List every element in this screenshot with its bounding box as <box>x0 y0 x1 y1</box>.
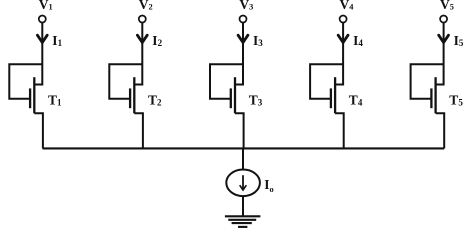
wire V5 terminal to T5 drain <box>436 23 444 85</box>
current arrow I2 <box>137 35 147 42</box>
node V5 label <box>440 0 454 12</box>
svg-text:I5: I5 <box>454 33 464 48</box>
transistor T1 <box>30 77 34 113</box>
wire V4 terminal to T4 drain <box>335 23 343 85</box>
transistor T2 <box>130 77 134 113</box>
current arrow I5 <box>439 35 449 42</box>
label I1 <box>52 33 62 48</box>
svg-text:Io: Io <box>264 177 273 194</box>
label Io <box>264 177 273 194</box>
voltage terminal V3 <box>240 16 247 23</box>
wire T3 source to rail <box>235 113 244 148</box>
wire T5 source to rail <box>436 113 445 148</box>
voltage terminal V4 <box>340 16 347 23</box>
ground <box>225 216 261 227</box>
wire gate feedback loop T5 <box>411 64 444 99</box>
wire gate feedback loop T3 <box>210 64 243 99</box>
svg-text:V1: V1 <box>39 0 53 12</box>
voltage terminal V2 <box>139 16 146 23</box>
svg-text:I1: I1 <box>52 33 62 48</box>
svg-text:T2: T2 <box>148 92 162 107</box>
wire current source to ground <box>242 196 244 216</box>
wire gate feedback loop T2 <box>109 64 142 99</box>
svg-text:V3: V3 <box>239 0 253 12</box>
node V3 label <box>239 0 253 12</box>
voltage terminal V1 <box>39 16 46 23</box>
current arrow I3 <box>238 35 248 42</box>
svg-text:V4: V4 <box>340 0 355 12</box>
wire T4 source to rail <box>335 113 344 148</box>
wire V1 terminal to T1 drain <box>34 23 42 85</box>
voltage terminal V5 <box>440 16 447 23</box>
label I5 <box>454 33 464 48</box>
wire gate feedback loop T1 <box>9 64 42 99</box>
wire rail to current source <box>242 148 244 169</box>
node V1 label <box>39 0 53 12</box>
label T3 <box>249 92 263 107</box>
label T1 <box>48 92 62 107</box>
svg-text:I4: I4 <box>353 33 363 48</box>
svg-text:T1: T1 <box>48 92 62 107</box>
svg-text:V5: V5 <box>440 0 454 12</box>
label T2 <box>148 92 162 107</box>
svg-text:T4: T4 <box>349 92 363 107</box>
svg-text:I3: I3 <box>253 33 263 48</box>
label I2 <box>152 33 162 48</box>
label I4 <box>353 33 363 48</box>
current arrow I4 <box>338 35 348 42</box>
transistor T4 <box>331 77 335 113</box>
transistor T5 <box>431 77 435 113</box>
node V2 label <box>139 0 153 12</box>
wire T1 source to rail <box>34 113 43 148</box>
wire T2 source to rail <box>134 113 143 148</box>
label T4 <box>349 92 363 107</box>
svg-text:V2: V2 <box>139 0 153 12</box>
node V4 label <box>340 0 355 12</box>
wire V3 terminal to T3 drain <box>235 23 243 85</box>
wire V2 terminal to T2 drain <box>134 23 142 85</box>
svg-text:T5: T5 <box>449 92 463 107</box>
current source Io <box>226 170 260 197</box>
common source rail wire <box>43 147 445 149</box>
wire gate feedback loop T4 <box>310 64 343 99</box>
svg-text:I2: I2 <box>152 33 162 48</box>
current arrow I1 <box>37 35 47 42</box>
svg-text:T3: T3 <box>249 92 263 107</box>
label T5 <box>449 92 463 107</box>
label I3 <box>253 33 263 48</box>
transistor T3 <box>231 77 235 113</box>
